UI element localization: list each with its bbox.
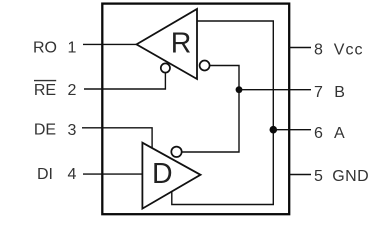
pin 4 wire DI — [83, 173, 142, 175]
svg-text:1: 1 — [68, 40, 77, 57]
svg-text:DI: DI — [37, 166, 53, 183]
svg-text:6: 6 — [314, 125, 323, 142]
svg-text:Vcc: Vcc — [334, 42, 364, 59]
wire node A: receiver input to A line and driver output tap — [172, 21, 273, 205]
receiver U1A triangle R — [137, 9, 198, 79]
svg-text:A: A — [334, 125, 345, 142]
pin 3 wire DE to driver enable — [82, 128, 152, 149]
svg-text:8: 8 — [314, 42, 323, 59]
wire node B: receiver bubble to B junction — [210, 66, 240, 90]
svg-text:DE: DE — [34, 122, 56, 139]
svg-text:D: D — [152, 158, 173, 190]
pin 1 wire RO — [83, 43, 137, 45]
svg-text:7: 7 — [314, 84, 323, 101]
bubble on driver inverting output — [171, 147, 181, 157]
svg-text:GND: GND — [332, 168, 369, 185]
svg-text:3: 3 — [68, 122, 77, 139]
svg-text:RE: RE — [34, 82, 56, 99]
junction dot on node B — [236, 86, 243, 93]
overline of RE — [34, 80, 56, 82]
svg-text:2: 2 — [68, 82, 77, 99]
bubble on receiver inverting input (B side) — [200, 61, 210, 71]
svg-text:RO: RO — [33, 40, 57, 57]
wire node B to driver inverting output bubble — [182, 90, 239, 152]
bubble on receiver enable (RE) — [161, 63, 170, 72]
pin 5 wire GND — [289, 174, 311, 176]
svg-text:5: 5 — [314, 168, 323, 185]
pin 2 wire RE to receiver enable bubble — [84, 73, 165, 89]
svg-text:B: B — [334, 84, 345, 101]
driver U1B triangle D — [142, 143, 200, 209]
IC body U1 (8-pin package outline) — [102, 4, 289, 215]
pin 7 wire B — [239, 89, 311, 91]
svg-text:R: R — [171, 27, 192, 59]
svg-text:4: 4 — [68, 166, 77, 183]
pin 8 wire Vcc — [289, 47, 311, 49]
pin 6 wire A — [273, 129, 311, 131]
junction dot on node A — [270, 126, 278, 134]
